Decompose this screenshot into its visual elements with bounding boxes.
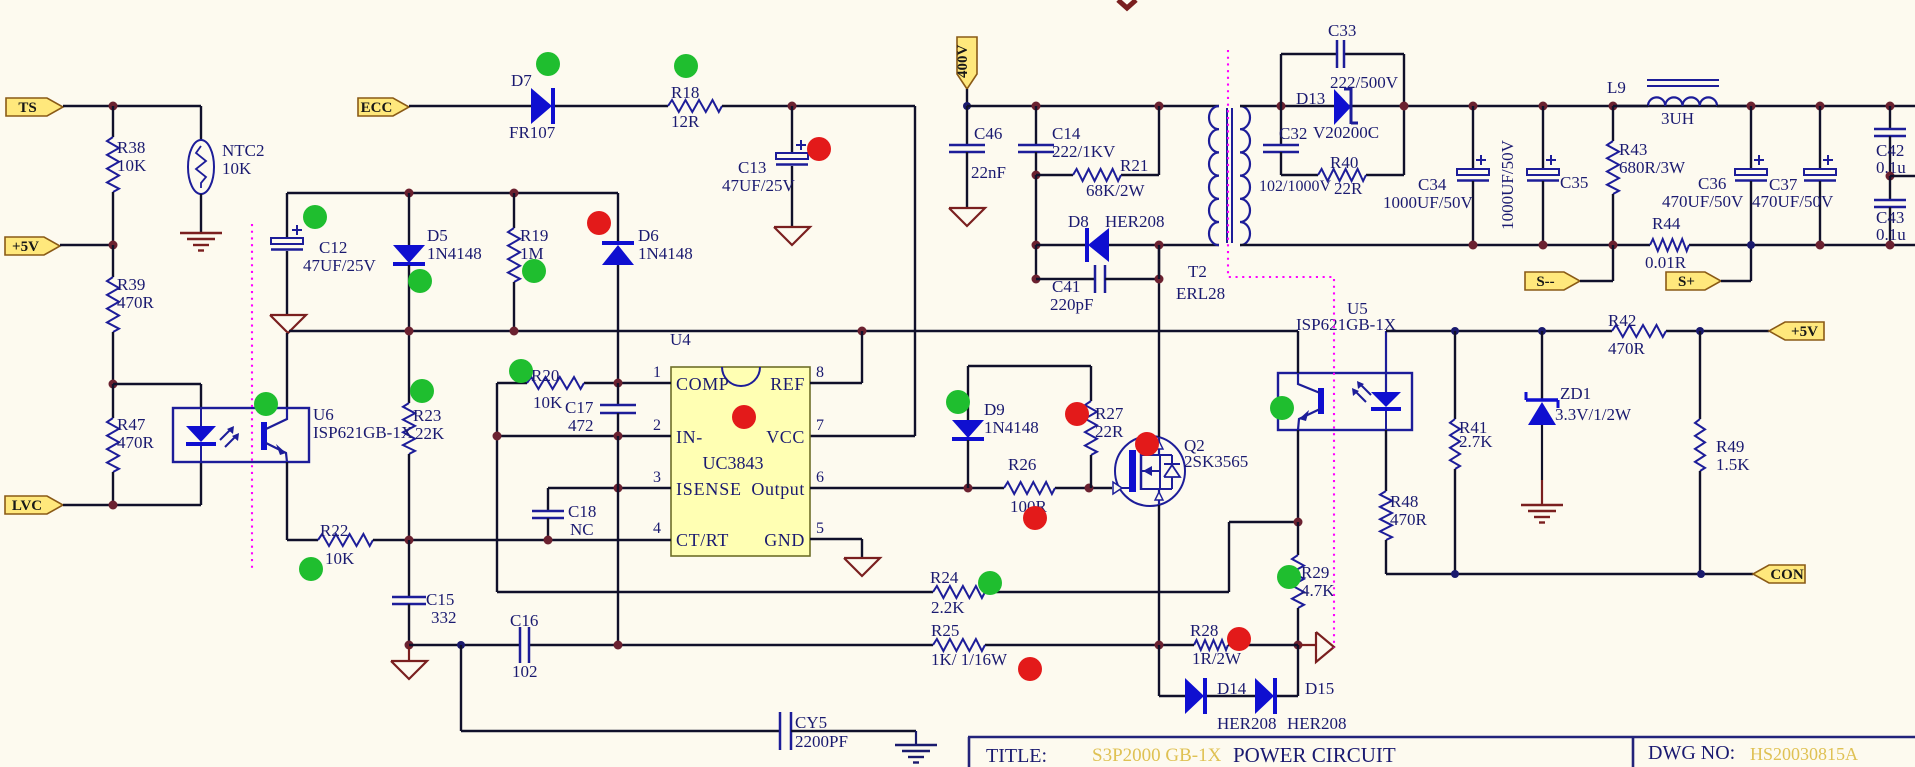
capacitor C17 (617, 383, 619, 404)
node C42 C43 junction (1886, 172, 1895, 181)
capacitor C15 (408, 540, 410, 596)
node C37 top junction (1816, 102, 1825, 111)
svg-text:2.7K: 2.7K (1459, 432, 1493, 451)
svg-text:C12: C12 (319, 238, 347, 257)
node C43 bottom junction (1886, 241, 1895, 250)
svg-text:C13: C13 (738, 158, 766, 177)
node pin3 junction (614, 484, 623, 493)
wire rail ECC-aux y193 (287, 192, 618, 194)
capacitor C14 (1035, 106, 1037, 144)
svg-text:R19: R19 (520, 226, 548, 245)
svg-text:8: 8 (816, 364, 824, 381)
node L9 left junction (1609, 102, 1618, 111)
wire D7 to R18 (555, 105, 668, 107)
svg-text:R48: R48 (1390, 492, 1418, 511)
wire to opto anode (113, 383, 201, 385)
svg-text:U4: U4 (670, 330, 691, 349)
node LVC junction (109, 501, 118, 510)
svg-text:4.7K: 4.7K (1301, 581, 1335, 600)
opto U6 LED (200, 408, 202, 426)
svg-text:R44: R44 (1652, 214, 1681, 233)
svg-text:POWER CIRCUIT: POWER CIRCUIT (1233, 743, 1396, 767)
capacitor C36 (1750, 106, 1752, 169)
wire TS to node (63, 105, 201, 107)
wire C14 to D8 (1035, 175, 1037, 245)
svg-text:1: 1 (653, 364, 661, 381)
svg-text:1000UF/50V: 1000UF/50V (1383, 193, 1473, 212)
wire +5V rail (1386, 330, 1612, 332)
resistor R28 (1194, 640, 1228, 650)
node ZD1 junction (1538, 327, 1546, 335)
wire CON (1386, 573, 1753, 575)
inductor L9 (1648, 97, 1717, 106)
node C42 top junction (1886, 102, 1895, 111)
net label +5V right (1769, 322, 1824, 340)
resistor R18 (668, 100, 722, 112)
net label LVC (5, 496, 63, 514)
svg-text:UC3843: UC3843 (702, 453, 763, 473)
svg-text:C32: C32 (1279, 124, 1307, 143)
wire pin5 GND (810, 538, 862, 540)
arrow D15 output (1298, 644, 1316, 646)
diode D14 loop (1158, 645, 1160, 696)
svg-text:GND: GND (764, 530, 805, 550)
resistor R43 (1612, 106, 1614, 141)
svg-text:470R: 470R (1390, 510, 1428, 529)
wire LVC (63, 504, 113, 506)
marker top chevron (1118, 0, 1136, 8)
capacitor C13 (791, 106, 793, 153)
net label CON (1753, 565, 1805, 583)
isolation dotted line transformer (1228, 50, 1334, 648)
wire opto collector (286, 333, 288, 408)
svg-text:R29: R29 (1301, 563, 1329, 582)
capacitor C12 (286, 193, 288, 238)
svg-text:47UF/25V: 47UF/25V (303, 256, 376, 275)
svg-text:ZD1: ZD1 (1560, 384, 1591, 403)
node C37 bottom junction (1816, 241, 1825, 250)
wire R22 to node (373, 539, 409, 541)
capacitor C34 (1472, 106, 1474, 169)
svg-text:12R: 12R (671, 112, 700, 131)
ground GND pin5 triangle (844, 558, 880, 576)
svg-text:L9: L9 (1607, 78, 1626, 97)
diode D8 (1036, 244, 1087, 246)
svg-text:CT/RT: CT/RT (676, 530, 729, 550)
net label S-plus (1666, 272, 1721, 290)
capacitor C42 (1889, 106, 1891, 128)
svg-text:R18: R18 (671, 83, 699, 102)
svg-text:22K: 22K (415, 424, 445, 443)
svg-text:C16: C16 (510, 611, 538, 630)
transformer T2 secondary winding (1240, 106, 1250, 245)
probe green dots (536, 52, 560, 76)
opto U5 arrows (1356, 392, 1366, 402)
svg-text:S+: S+ (1678, 274, 1695, 290)
svg-text:6: 6 (816, 469, 824, 486)
svg-text:R38: R38 (117, 138, 145, 157)
svg-text:7: 7 (816, 417, 824, 434)
node TS junction (109, 102, 118, 111)
svg-text:22nF: 22nF (971, 163, 1006, 182)
svg-text:HER208: HER208 (1105, 212, 1165, 231)
svg-text:222/1KV: 222/1KV (1052, 142, 1116, 161)
svg-text:NTC2: NTC2 (222, 141, 265, 160)
svg-text:470UF/50V: 470UF/50V (1752, 192, 1834, 211)
svg-text:2: 2 (653, 417, 661, 434)
node C15 ground junction (405, 641, 414, 650)
node CY5 branch (457, 641, 465, 649)
node C36 top junction (1747, 102, 1756, 111)
diode D15 (1255, 678, 1274, 714)
svg-text:R40: R40 (1330, 153, 1358, 172)
svg-text:D7: D7 (511, 71, 532, 90)
svg-text:DWG NO:: DWG NO: (1648, 742, 1735, 764)
node C35 top junction (1539, 102, 1548, 111)
resistor R21 loop (1032, 171, 1041, 180)
node U5 emitter junction (1294, 518, 1303, 527)
node R39/R47 junction (109, 380, 118, 389)
resistor R29 (1297, 522, 1299, 555)
net label 400V (957, 37, 977, 89)
svg-text:680R/3W: 680R/3W (1619, 158, 1686, 177)
resistor R40 loop (1281, 174, 1318, 176)
wire 400V stem (966, 89, 968, 106)
svg-text:C14: C14 (1052, 124, 1081, 143)
svg-text:HS20030815A: HS20030815A (1750, 744, 1858, 764)
wire pin3 ISENSE (548, 487, 671, 489)
wire R39 down (112, 332, 114, 384)
svg-text:R28: R28 (1190, 621, 1218, 640)
capacitor CY5 (779, 712, 782, 750)
svg-text:C17: C17 (565, 398, 594, 417)
resistor R47 (112, 384, 114, 418)
svg-text:470UF/50V: 470UF/50V (1662, 192, 1744, 211)
capacitor C35 (1542, 106, 1544, 169)
probe red dots (807, 137, 831, 161)
wire secondary top rail (1240, 105, 1915, 107)
wire pin2 IN- (497, 435, 671, 437)
wire pin1 COMP (497, 382, 527, 384)
diode D14 (1185, 678, 1204, 714)
resistor R25 (933, 639, 985, 651)
opto U5 LED (1385, 331, 1387, 392)
svg-text:68K/2W: 68K/2W (1086, 181, 1146, 200)
node R19 rail junction (510, 327, 519, 336)
svg-text:ECC: ECC (361, 100, 393, 116)
wire U5 collector (1297, 331, 1299, 373)
isolation dotted line left (251, 224, 253, 569)
wire opto emitter to R22 (286, 462, 288, 540)
capacitor C46 (966, 106, 968, 144)
node pin2 junctions (614, 432, 623, 441)
svg-text:D13: D13 (1296, 89, 1325, 108)
ground ZD1 (1521, 504, 1563, 506)
node C34 top junction (1469, 102, 1478, 111)
svg-text:1N4148: 1N4148 (984, 418, 1039, 437)
net label ECC (358, 98, 409, 116)
opto U6 arrows (220, 430, 230, 440)
svg-text:R23: R23 (413, 406, 441, 425)
resistor R22 (318, 534, 373, 546)
svg-text:102/1000V: 102/1000V (1259, 178, 1331, 195)
svg-text:3UH: 3UH (1661, 109, 1694, 128)
ground C46 triangle (949, 208, 985, 226)
node R49 CON junction (1697, 570, 1705, 578)
wire +5V (60, 244, 113, 246)
svg-text:4: 4 (653, 520, 661, 537)
svg-text:D9: D9 (984, 400, 1005, 419)
resistor R48 (1385, 430, 1387, 491)
svg-text:22R: 22R (1095, 422, 1124, 441)
svg-text:332: 332 (431, 608, 457, 627)
wire CY5 run (460, 645, 462, 731)
svg-text:Output: Output (751, 479, 805, 499)
svg-text:400V: 400V (955, 45, 971, 79)
node R43 bottom junction (1609, 241, 1618, 250)
svg-text:10K: 10K (533, 393, 563, 412)
title block border (968, 736, 1915, 739)
resistor R41 (1454, 331, 1456, 419)
node 400V junction (963, 102, 971, 110)
svg-text:VCC: VCC (766, 427, 805, 447)
resistor R39 (112, 245, 114, 277)
thermistor NTC2 (200, 106, 202, 141)
resistor R26 (1004, 482, 1055, 494)
svg-text:IN-: IN- (676, 427, 703, 447)
zener ZD1 (1541, 331, 1543, 400)
node C13 junction (788, 102, 797, 111)
svg-text:TS: TS (18, 100, 36, 116)
wire VCC feed (914, 106, 916, 436)
node Q2 source junction (1155, 641, 1164, 650)
svg-text:C35: C35 (1560, 173, 1588, 192)
node C36 bottom junction (1747, 241, 1755, 249)
capacitor C37 (1819, 106, 1821, 169)
svg-text:D14: D14 (1217, 679, 1247, 698)
svg-text:1K/ 1/16W: 1K/ 1/16W (931, 650, 1008, 669)
svg-text:1N4148: 1N4148 (427, 244, 482, 263)
svg-text:R20: R20 (531, 366, 559, 385)
resistor R44 (1650, 239, 1689, 251)
svg-text:22R: 22R (1334, 179, 1363, 198)
wire R18 to corner (722, 105, 915, 107)
wire pin4 CT/RT (409, 539, 671, 541)
node R41 junction (1451, 327, 1459, 335)
svg-text:10K: 10K (222, 159, 252, 178)
node C34 bottom junction (1469, 241, 1478, 250)
svg-text:+5V: +5V (1791, 324, 1818, 340)
svg-text:TITLE:: TITLE: (986, 745, 1047, 767)
svg-text:S3P2000 GB-1X: S3P2000 GB-1X (1092, 745, 1222, 766)
svg-text:1.5K: 1.5K (1716, 455, 1750, 474)
svg-text:C34: C34 (1418, 175, 1447, 194)
diode D7 (531, 88, 552, 124)
resistor R49 (1699, 331, 1701, 419)
svg-text:ISP621GB-1X: ISP621GB-1X (1296, 315, 1396, 334)
wire D6 column lower (617, 436, 619, 645)
svg-text:U6: U6 (313, 405, 334, 424)
svg-text:D5: D5 (427, 226, 448, 245)
svg-text:LVC: LVC (12, 498, 42, 514)
wire REF rail y331 (289, 330, 1298, 332)
svg-text:HER208: HER208 (1287, 714, 1347, 733)
svg-text:5: 5 (816, 520, 824, 537)
svg-text:3.3V/1/2W: 3.3V/1/2W (1555, 405, 1632, 424)
svg-text:C33: C33 (1328, 21, 1356, 40)
svg-text:1N4148: 1N4148 (638, 244, 693, 263)
node R41 CON junction (1451, 570, 1459, 578)
wire pin6 Output (810, 487, 1004, 489)
node pin1 D6 junction (614, 379, 623, 388)
node REF rail junction (858, 327, 867, 336)
svg-text:+5V: +5V (12, 239, 39, 255)
svg-text:FR107: FR107 (509, 123, 556, 142)
svg-text:V20200C: V20200C (1313, 123, 1379, 142)
capacitor C41 (1035, 245, 1037, 279)
resistor R38 (107, 137, 119, 192)
svg-text:C36: C36 (1698, 174, 1726, 193)
node R49 junction (1696, 327, 1704, 335)
wire primary top rail (967, 105, 1219, 107)
wire U5 emitter (1297, 430, 1299, 522)
wire R38 to +5V node (112, 192, 114, 245)
svg-text:R26: R26 (1008, 455, 1036, 474)
capacitor C16 (519, 627, 522, 663)
svg-text:R27: R27 (1095, 404, 1124, 423)
ground C12 triangle (270, 315, 306, 333)
node D8 left junction (1032, 241, 1041, 250)
node C16 right junction (614, 641, 623, 650)
svg-text:2.2K: 2.2K (931, 598, 965, 617)
svg-text:1000UF/50V: 1000UF/50V (1498, 139, 1517, 229)
optocoupler U5 box (1278, 373, 1412, 430)
node C33 junction (1400, 102, 1409, 111)
diode D9 loop wire (968, 365, 1091, 367)
svg-text:ISENSE: ISENSE (676, 479, 742, 499)
svg-text:470R: 470R (117, 433, 155, 452)
svg-text:ISP621GB-1X: ISP621GB-1X (313, 423, 413, 442)
svg-text:COMP: COMP (676, 374, 729, 394)
svg-text:ERL28: ERL28 (1176, 284, 1225, 303)
svg-text:S--: S-- (1536, 274, 1554, 290)
svg-text:0.01R: 0.01R (1645, 253, 1687, 272)
node D9 junction (964, 484, 973, 493)
wire NTC2 to ground (200, 194, 202, 233)
svg-text:470R: 470R (1608, 339, 1646, 358)
transformer T2 primary winding (1209, 106, 1219, 245)
resistor R20 (527, 377, 584, 389)
capacitor C33 loop (1280, 54, 1282, 106)
svg-text:10K: 10K (325, 549, 355, 568)
svg-text:T2: T2 (1188, 262, 1207, 281)
capacitor C18 (547, 488, 549, 510)
wire COMP feedback vertical (496, 383, 498, 592)
node pin4 junctions (405, 536, 414, 545)
resistor R27 (1085, 401, 1097, 455)
svg-text:472: 472 (568, 416, 594, 435)
resistor R23 (408, 331, 410, 403)
svg-text:R43: R43 (1619, 140, 1647, 159)
svg-text:C18: C18 (568, 502, 596, 521)
diode D6 (617, 193, 619, 243)
svg-text:2200PF: 2200PF (795, 732, 848, 751)
svg-text:R39: R39 (117, 275, 145, 294)
wire Q2 drain (1158, 245, 1160, 437)
svg-text:NC: NC (570, 520, 594, 539)
svg-text:222/500V: 222/500V (1330, 73, 1399, 92)
ground CY5 (915, 731, 917, 745)
svg-text:HER208: HER208 (1217, 714, 1277, 733)
svg-text:1R/2W: 1R/2W (1192, 649, 1242, 668)
svg-text:R25: R25 (931, 621, 959, 640)
wire comp feedback y592 (497, 591, 933, 593)
svg-text:C46: C46 (974, 124, 1002, 143)
svg-text:CON: CON (1770, 567, 1804, 583)
net label TS (6, 98, 63, 116)
resistor R19 (510, 189, 519, 198)
opto U5 phototransistor (1318, 388, 1324, 414)
opto U6 phototransistor (261, 422, 267, 450)
svg-text:102: 102 (512, 662, 538, 681)
svg-text:R42: R42 (1608, 311, 1636, 330)
resistor R24 (933, 586, 985, 598)
svg-text:47UF/25V: 47UF/25V (722, 176, 795, 195)
svg-text:R22: R22 (320, 521, 348, 540)
ground C15 triangle (408, 645, 410, 661)
wire pin8 REF (810, 382, 862, 384)
node +5V junction (109, 241, 118, 250)
net label +5V (5, 237, 60, 255)
optocoupler U6 box (173, 408, 309, 462)
diode D5 (405, 189, 414, 198)
svg-text:D6: D6 (638, 226, 659, 245)
capacitor C43 (1889, 176, 1891, 199)
svg-text:D8: D8 (1068, 212, 1089, 231)
svg-text:3: 3 (653, 469, 661, 486)
diode D13 V20200C (1334, 89, 1351, 125)
capacitor C32 (1277, 102, 1286, 111)
node R28 R29 junction (1294, 641, 1303, 650)
svg-text:470R: 470R (117, 293, 155, 312)
svg-text:CY5: CY5 (795, 713, 827, 732)
transistor Q2 2SK3565 (1115, 436, 1185, 506)
node D5 rail junction (405, 327, 414, 336)
svg-text:C41: C41 (1052, 277, 1080, 296)
svg-text:R49: R49 (1716, 437, 1744, 456)
wire secondary bottom rail (1240, 244, 1650, 246)
node D8 right junction (1155, 241, 1164, 250)
ic U4 UC3843 body (671, 367, 810, 556)
resistor R42 (1612, 325, 1666, 337)
svg-text:220pF: 220pF (1050, 295, 1093, 314)
ground C13 triangle (774, 227, 810, 245)
svg-text:R21: R21 (1120, 156, 1148, 175)
svg-text:2SK3565: 2SK3565 (1184, 452, 1248, 471)
svg-text:C15: C15 (426, 590, 454, 609)
wire isense y645 (409, 644, 519, 646)
svg-text:D15: D15 (1305, 679, 1334, 698)
node R27 junction (1085, 484, 1094, 493)
net label S-minus (1525, 272, 1580, 290)
svg-text:10K: 10K (117, 156, 147, 175)
svg-text:R47: R47 (117, 415, 146, 434)
svg-text:R24: R24 (930, 568, 959, 587)
svg-text:REF: REF (770, 374, 805, 394)
ground NTC2 (180, 232, 222, 234)
diode D9 (952, 420, 984, 438)
wire TS vertical (112, 106, 114, 137)
